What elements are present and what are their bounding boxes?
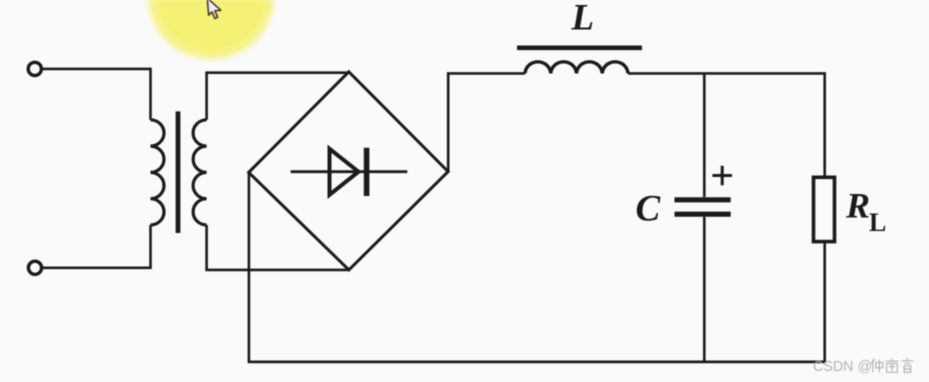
wire top rail from inductor to load corner [628,72,825,75]
watermark char zhong [871,359,883,372]
transformer T1 core [176,111,181,233]
resistor RL body [814,177,835,241]
highlight spotlight [143,0,280,65]
wire top-left terminal to primary [42,69,151,120]
wire bridge left node down to bottom rail [248,172,251,362]
diode D1 triangle [330,149,359,195]
wire secondary top to bridge top node [207,73,349,120]
svg-text:R: R [845,186,870,226]
diode D1 cathode bar [364,148,370,196]
label L bar [517,45,642,50]
wire load branch upper [823,72,826,177]
inductor L coil [525,62,628,74]
bridge rectifier diamond [249,72,448,270]
wire secondary bottom to bridge bottom node [207,225,349,270]
wire capacitor branch upper [703,73,706,197]
wire capacitor branch lower [703,217,706,362]
wire primary bottom to terminal [42,225,151,268]
transformer T1 primary coil [151,120,165,225]
watermark char yin [902,358,914,372]
terminal J1 (AC input top) [28,62,41,75]
svg-text:C: C [636,189,662,230]
capacitor C top plate [675,197,731,202]
svg-text:CSDN @: CSDN @ [813,359,872,375]
diode D1 anode-cathode line [291,170,408,173]
svg-text:L: L [869,208,886,237]
transformer T1 secondary coil [193,120,207,225]
svg-text:L: L [571,0,595,39]
wire bridge right node up to top rail [448,73,525,171]
mouse cursor [207,0,221,19]
watermark char nan [885,359,898,373]
capacitor C bottom plate [675,212,731,217]
capacitor C plus mark [712,166,732,186]
terminal J2 (AC input bottom) [28,261,41,274]
wire load branch lower [823,241,826,362]
wire bottom rail [248,360,825,363]
